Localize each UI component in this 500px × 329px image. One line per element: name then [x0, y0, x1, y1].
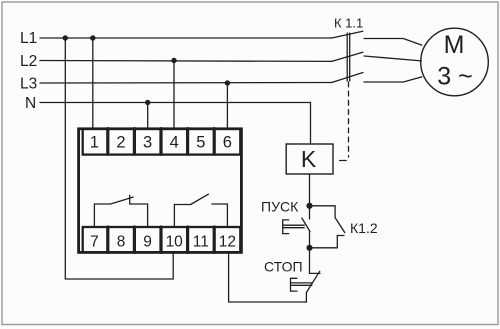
svg-text:3: 3	[143, 134, 152, 152]
junction L1 to terminal 1	[90, 35, 95, 40]
svg-text:M: M	[444, 31, 465, 59]
wire L1 down-around to terminal 10	[65, 38, 173, 279]
svg-text:7: 7	[90, 233, 99, 250]
relay body outline	[79, 129, 242, 253]
junction node STOP top	[306, 245, 312, 251]
relay terminal row 1-6	[83, 129, 241, 155]
wire L3 to terminal 6	[226, 83, 228, 128]
svg-text:2: 2	[116, 134, 125, 152]
pushbutton PUSK (NO)	[283, 206, 310, 248]
wire L1 to terminal 1	[92, 38, 94, 128]
junction L3 to terminal 6	[225, 80, 230, 85]
svg-text:12: 12	[219, 233, 236, 250]
junction node PUSK top	[306, 203, 312, 209]
svg-text:5: 5	[196, 134, 205, 152]
wire N to terminal 3	[147, 103, 149, 129]
coil K	[286, 144, 333, 174]
motor M 3~	[421, 28, 489, 96]
svg-text:11: 11	[193, 233, 209, 250]
svg-text:8: 8	[117, 233, 126, 250]
svg-text:10: 10	[166, 233, 184, 250]
wire L3 rail	[40, 82, 332, 85]
wire coil K to PUSK node	[309, 174, 311, 206]
relay internal contact 10-12	[174, 194, 227, 227]
contactor main contact K1.1 (3-pole)	[332, 31, 363, 82]
junction N to terminal 3	[145, 100, 150, 105]
svg-text:СТОП: СТОП	[264, 259, 303, 275]
pushbutton STOP (NC)	[291, 248, 321, 293]
svg-text:1: 1	[90, 134, 99, 152]
svg-text:L1: L1	[20, 30, 37, 47]
svg-text:К 1.1: К 1.1	[334, 16, 363, 31]
wire phase 2 to motor	[364, 56, 421, 61]
svg-text:3 ~: 3 ~	[437, 63, 472, 91]
svg-text:6: 6	[223, 134, 232, 152]
svg-text:L2: L2	[20, 53, 37, 70]
auxiliary contact K1.2	[310, 206, 345, 248]
svg-text:К1.2: К1.2	[350, 220, 378, 236]
junction L1 left	[63, 35, 68, 40]
wire L1 rail	[40, 37, 332, 39]
wire STOP to terminal 12	[229, 253, 307, 302]
wire phase 1 to motor	[364, 39, 422, 46]
svg-text:N: N	[25, 95, 36, 112]
relay terminal row 7-12	[83, 227, 241, 252]
svg-text:4: 4	[170, 134, 179, 152]
junction L2 to terminal 4	[171, 58, 176, 63]
relay internal contact 7-9	[94, 195, 147, 227]
wire N rail to coil K	[40, 103, 311, 145]
svg-text:ПУСК: ПУСК	[261, 199, 299, 215]
svg-text:K: K	[301, 146, 317, 172]
wire L2 to terminal 4	[173, 61, 175, 129]
wire phase 3 to motor	[364, 77, 422, 82]
svg-text:L3: L3	[20, 76, 37, 93]
wire L2 rail	[40, 60, 332, 63]
mechanical link dashed K1.1 to coil	[348, 82, 350, 157]
svg-text:9: 9	[143, 233, 152, 250]
